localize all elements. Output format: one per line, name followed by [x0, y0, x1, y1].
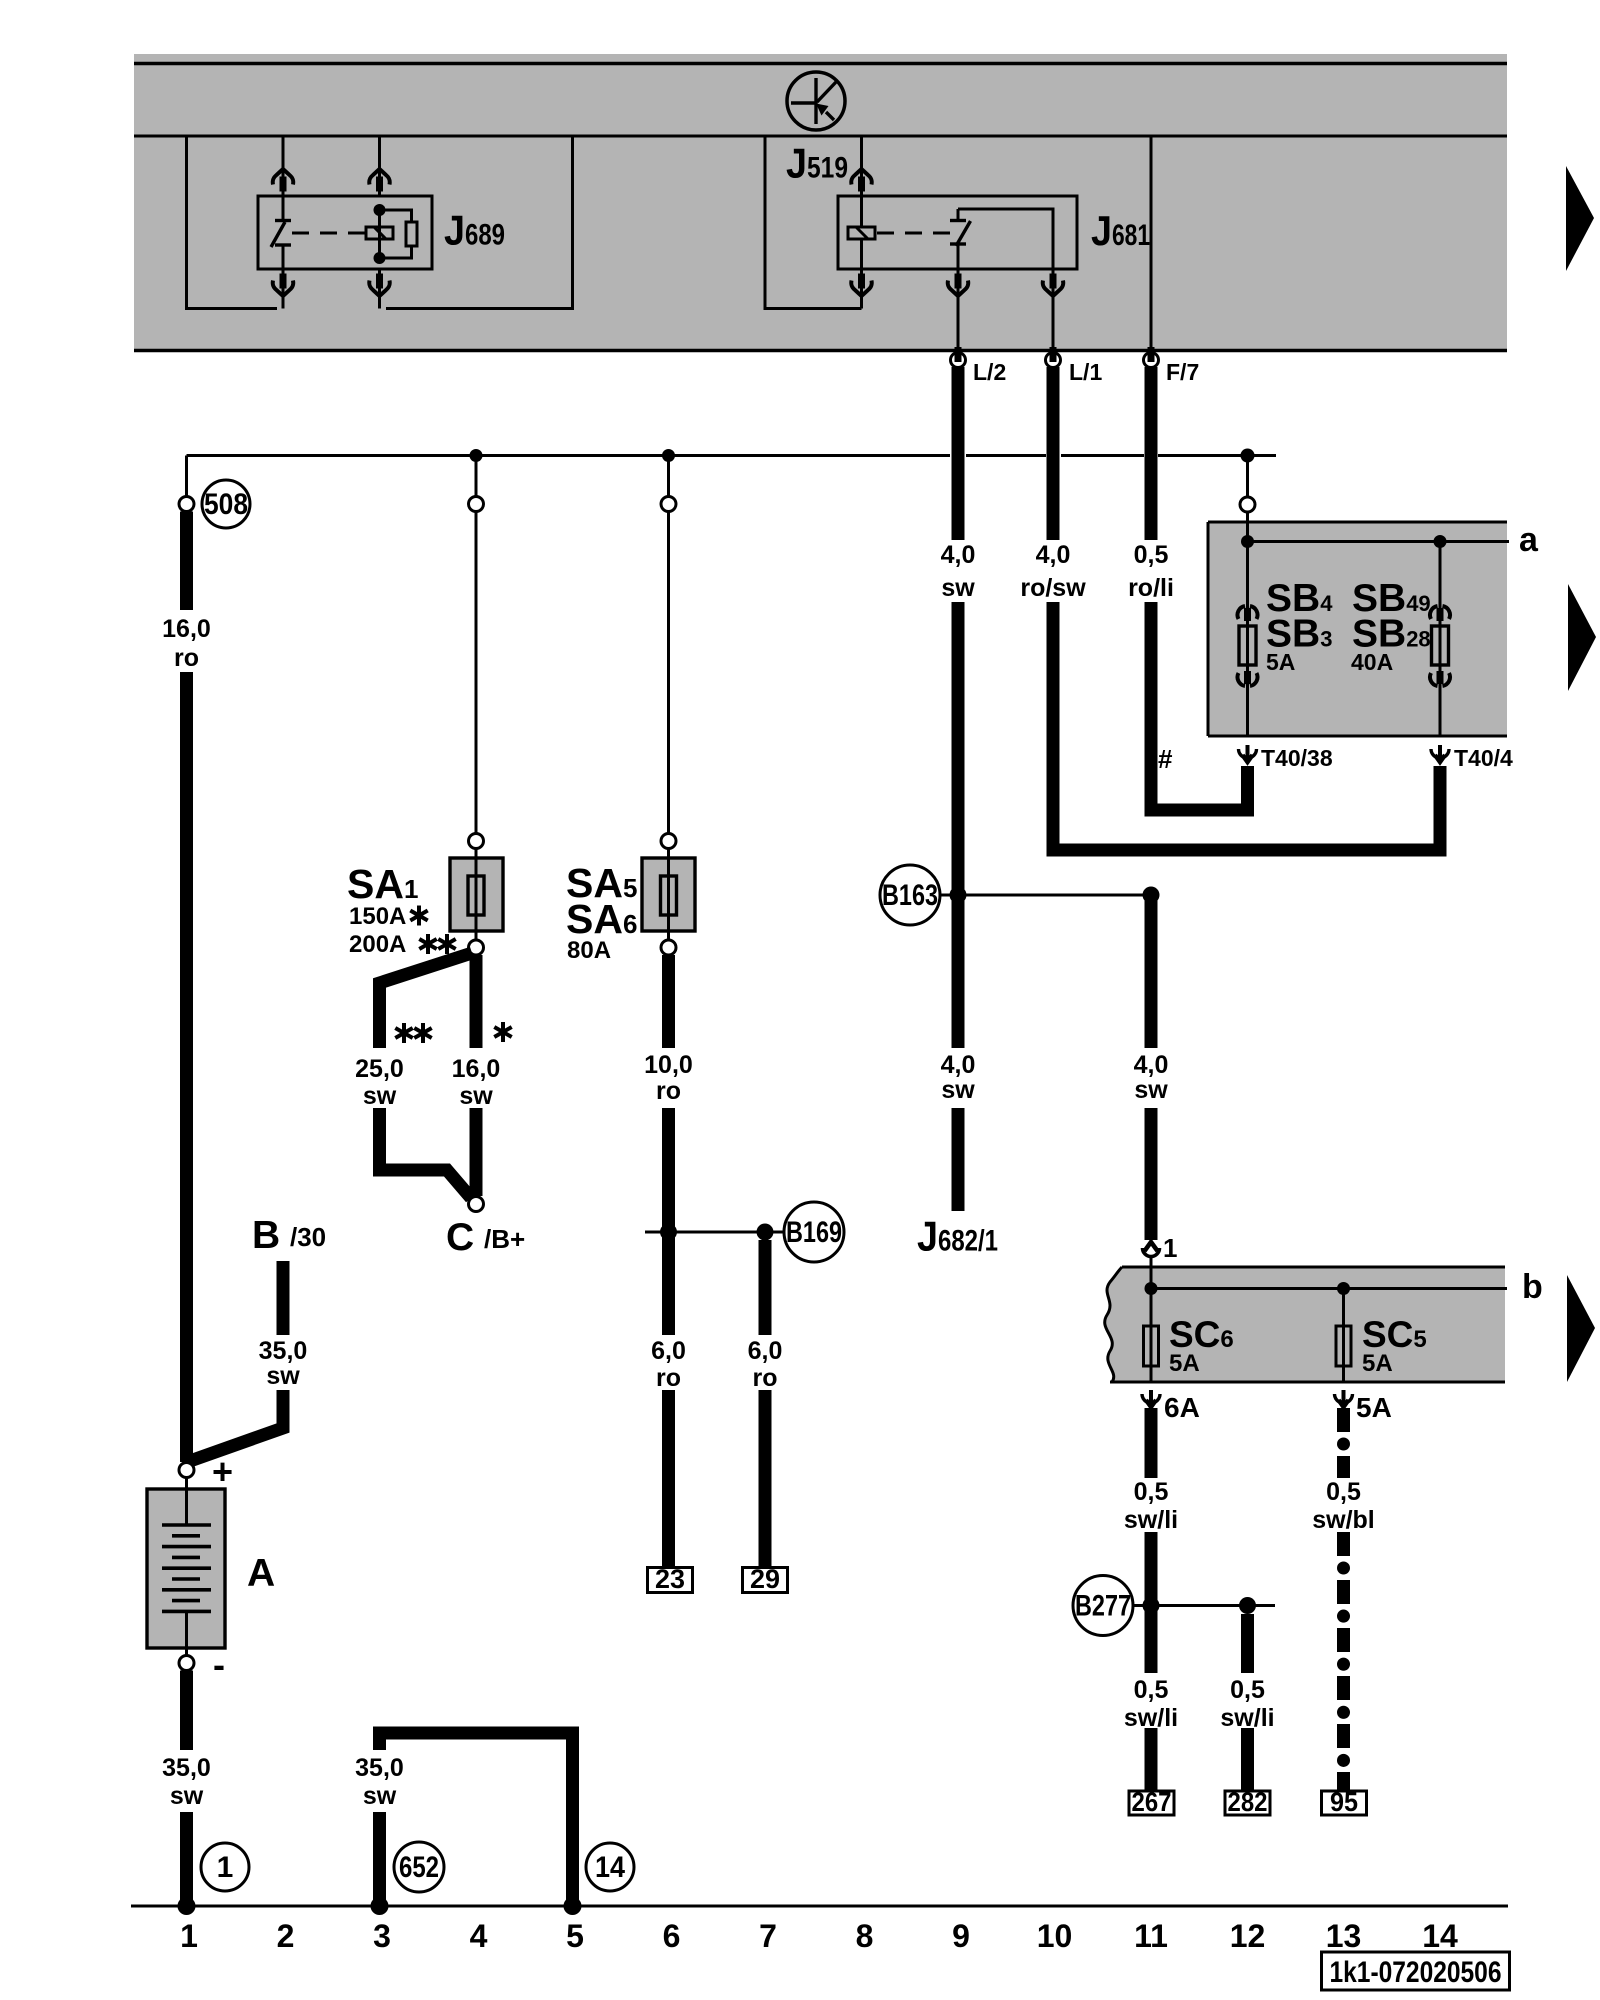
svg-text:sw: sw	[941, 1076, 975, 1104]
svg-text:C: C	[446, 1216, 474, 1259]
svg-text:282: 282	[1228, 1787, 1268, 1817]
svg-text:6A: 6A	[1164, 1392, 1200, 1423]
svg-text:29: 29	[750, 1564, 780, 1594]
svg-text:4,0: 4,0	[941, 541, 976, 569]
svg-text:267: 267	[1132, 1787, 1172, 1817]
svg-text:b: b	[1522, 1268, 1543, 1306]
svg-text:T40/38: T40/38	[1261, 745, 1333, 771]
svg-text:11: 11	[1134, 1918, 1168, 1954]
svg-text:ro: ro	[656, 1077, 681, 1105]
svg-text:9: 9	[952, 1918, 970, 1954]
svg-text:1k1-072020506: 1k1-072020506	[1330, 1956, 1502, 1989]
svg-text:ro/sw: ro/sw	[1020, 574, 1086, 602]
svg-text:0,5: 0,5	[1134, 1676, 1169, 1704]
svg-text:B169: B169	[786, 1216, 842, 1249]
svg-text:5A: 5A	[1362, 1350, 1393, 1377]
svg-text:sw: sw	[266, 1362, 300, 1390]
svg-text:4,0: 4,0	[941, 1051, 976, 1079]
svg-text:23: 23	[655, 1564, 685, 1594]
svg-text:sw/li: sw/li	[1220, 1704, 1274, 1732]
svg-text:ro: ro	[174, 644, 199, 672]
svg-text:sw/bl: sw/bl	[1312, 1506, 1375, 1534]
svg-text:200A: 200A	[349, 931, 406, 958]
svg-text:B: B	[252, 1214, 280, 1257]
svg-text:35,0: 35,0	[259, 1337, 308, 1365]
svg-text:B277: B277	[1075, 1590, 1131, 1623]
svg-text:6: 6	[663, 1918, 681, 1954]
svg-text:sw: sw	[170, 1782, 204, 1810]
svg-text:B163: B163	[882, 879, 938, 912]
svg-text:L/2: L/2	[973, 359, 1006, 385]
svg-text:10,0: 10,0	[644, 1051, 693, 1079]
svg-text:/B+: /B+	[484, 1224, 525, 1254]
svg-text:+: +	[212, 1451, 233, 1492]
svg-text:T40/4: T40/4	[1454, 745, 1513, 771]
svg-text:sw: sw	[941, 574, 975, 602]
svg-text:16,0: 16,0	[452, 1055, 501, 1083]
svg-text:4,0: 4,0	[1036, 541, 1071, 569]
svg-text:L/1: L/1	[1069, 359, 1102, 385]
svg-text:5: 5	[566, 1918, 584, 1954]
svg-text:sw: sw	[459, 1082, 493, 1110]
svg-text:6,0: 6,0	[651, 1337, 686, 1365]
svg-text:#: #	[1158, 744, 1173, 774]
svg-text:ro: ro	[753, 1364, 778, 1392]
svg-text:sw/li: sw/li	[1124, 1704, 1178, 1732]
svg-text:14: 14	[595, 1851, 625, 1884]
svg-text:5A: 5A	[1356, 1392, 1392, 1423]
svg-text:95: 95	[1330, 1787, 1358, 1817]
svg-text:35,0: 35,0	[355, 1754, 404, 1782]
svg-text:652: 652	[399, 1851, 439, 1884]
svg-text:6,0: 6,0	[748, 1337, 783, 1365]
svg-text:3: 3	[373, 1918, 391, 1954]
svg-text:508: 508	[204, 488, 248, 521]
svg-text:sw: sw	[363, 1782, 397, 1810]
svg-text:4,0: 4,0	[1134, 1051, 1169, 1079]
svg-text:25,0: 25,0	[355, 1055, 404, 1083]
svg-text:13: 13	[1326, 1918, 1362, 1954]
svg-text:5A: 5A	[1169, 1350, 1200, 1377]
svg-text:150A: 150A	[349, 903, 406, 930]
svg-text:12: 12	[1230, 1918, 1266, 1954]
svg-text:0,5: 0,5	[1134, 541, 1169, 569]
svg-text:5A: 5A	[1266, 649, 1295, 675]
svg-text:1: 1	[180, 1918, 198, 1954]
svg-text:8: 8	[856, 1918, 874, 1954]
svg-text:80A: 80A	[567, 937, 611, 964]
svg-text:16,0: 16,0	[162, 615, 211, 643]
svg-text:F/7: F/7	[1166, 359, 1199, 385]
svg-text:-: -	[213, 1644, 225, 1685]
svg-text:A: A	[247, 1552, 275, 1595]
svg-text:a: a	[1519, 521, 1539, 559]
svg-text:sw: sw	[363, 1082, 397, 1110]
svg-text:ro: ro	[656, 1364, 681, 1392]
svg-text:sw/li: sw/li	[1124, 1506, 1178, 1534]
svg-text:0,5: 0,5	[1134, 1478, 1169, 1506]
svg-text:ro/li: ro/li	[1128, 574, 1174, 602]
svg-text:10: 10	[1037, 1918, 1073, 1954]
svg-text:2: 2	[277, 1918, 295, 1954]
svg-text:1: 1	[217, 1851, 234, 1884]
svg-text:40A: 40A	[1351, 649, 1393, 675]
svg-text:4: 4	[470, 1918, 488, 1954]
svg-text:/30: /30	[290, 1222, 326, 1252]
svg-text:1: 1	[1163, 1233, 1177, 1263]
svg-text:14: 14	[1422, 1918, 1458, 1954]
svg-text:0,5: 0,5	[1230, 1676, 1265, 1704]
svg-text:35,0: 35,0	[162, 1754, 211, 1782]
svg-text:sw: sw	[1134, 1076, 1168, 1104]
svg-text:7: 7	[759, 1918, 777, 1954]
svg-text:0,5: 0,5	[1326, 1478, 1361, 1506]
